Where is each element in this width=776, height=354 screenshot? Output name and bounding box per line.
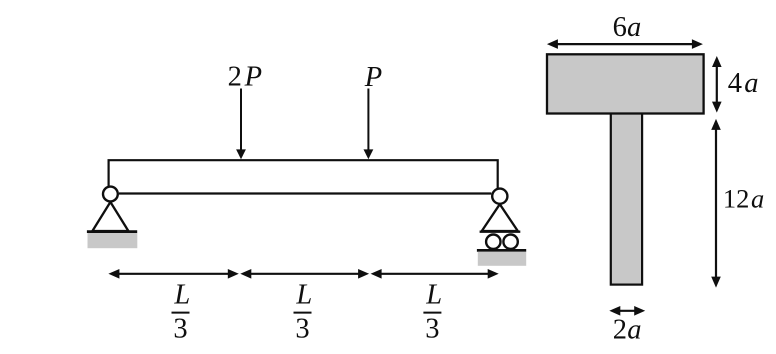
label 6a bbox=[613, 12, 642, 43]
dimension segment 2 (2P to P) bbox=[240, 269, 369, 279]
svg-text:L: L bbox=[295, 280, 312, 311]
dimension segment 3 (P to right support) bbox=[371, 269, 499, 279]
svg-text:6: 6 bbox=[613, 12, 627, 43]
dimension segment 1 (left support to 2P) bbox=[108, 269, 238, 279]
svg-text:12: 12 bbox=[723, 184, 750, 214]
svg-text:a: a bbox=[744, 68, 758, 99]
left support triangle bbox=[87, 202, 137, 232]
label 4a bbox=[728, 68, 759, 99]
label 2a bbox=[613, 314, 642, 345]
label P bbox=[364, 62, 382, 93]
label 12a bbox=[723, 184, 764, 214]
svg-text:3: 3 bbox=[173, 314, 187, 345]
right support ground block bbox=[478, 252, 526, 266]
right pin support circle bbox=[492, 189, 507, 204]
label 2P bbox=[228, 62, 262, 93]
T-section web bbox=[611, 113, 642, 285]
dimension arrow 4a (vertical double arrow) bbox=[712, 56, 722, 113]
svg-text:4: 4 bbox=[728, 68, 742, 99]
dimension arrow 6a (horizontal double arrow) bbox=[547, 39, 703, 49]
fraction L/3 (span 3) bbox=[423, 280, 442, 345]
svg-text:3: 3 bbox=[425, 314, 439, 345]
load arrow 2P bbox=[236, 89, 246, 160]
svg-text:P: P bbox=[244, 62, 262, 93]
svg-text:2: 2 bbox=[228, 62, 242, 93]
fraction L/3 (span 2) bbox=[294, 280, 313, 345]
svg-text:3: 3 bbox=[295, 314, 309, 345]
load arrow P bbox=[364, 89, 374, 160]
fraction L/3 (span 1) bbox=[172, 280, 191, 345]
left pin support circle bbox=[103, 187, 118, 202]
svg-text:a: a bbox=[627, 12, 641, 43]
svg-text:L: L bbox=[173, 280, 190, 311]
dimension arrow 12a (vertical double arrow) bbox=[711, 119, 721, 288]
svg-text:P: P bbox=[364, 62, 382, 93]
T-section flange bbox=[547, 54, 704, 113]
svg-text:a: a bbox=[627, 314, 641, 345]
svg-text:2: 2 bbox=[613, 314, 627, 345]
svg-text:a: a bbox=[751, 184, 764, 214]
right support ground line bbox=[477, 249, 526, 252]
beam outline bbox=[109, 160, 498, 193]
svg-text:L: L bbox=[425, 280, 442, 311]
right support triangle bbox=[480, 204, 521, 232]
dimension arrow 2a (horizontal double arrow) bbox=[609, 306, 645, 316]
right support rollers bbox=[486, 235, 518, 249]
left support ground block bbox=[88, 233, 138, 248]
